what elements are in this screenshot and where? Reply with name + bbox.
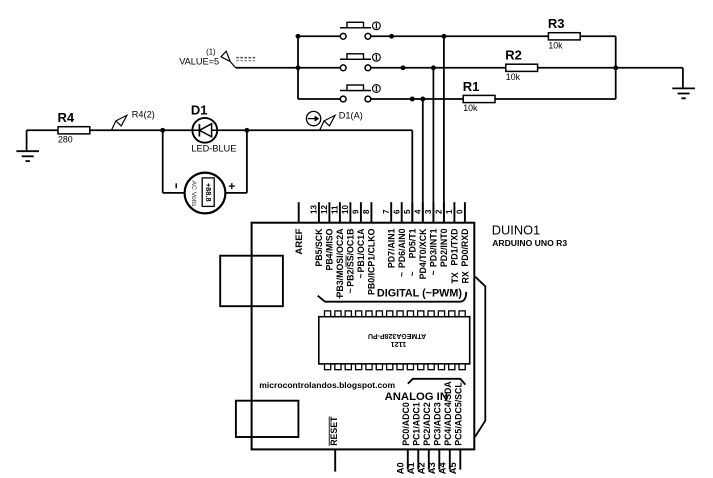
pin 10 digital xyxy=(349,202,351,223)
svg-text:PC3/ADC3: PC3/ADC3 xyxy=(433,402,443,446)
pin A4 analog xyxy=(449,449,451,469)
pin 12 digital xyxy=(328,202,330,223)
wire button2 to pin 3 xyxy=(432,68,434,223)
svg-text:R4(2): R4(2) xyxy=(132,110,155,120)
resistor R3 xyxy=(548,33,580,40)
svg-text:~: ~ xyxy=(408,271,418,276)
pin 2 digital xyxy=(443,202,445,223)
svg-text:PB3/MOSI/OC2A: PB3/MOSI/OC2A xyxy=(335,228,345,298)
svg-text:PD4/T0/XCK: PD4/T0/XCK xyxy=(418,228,428,279)
pin AREF xyxy=(298,202,300,223)
svg-text:DIGITAL (~PWM): DIGITAL (~PWM) xyxy=(377,287,462,299)
svg-text:12: 12 xyxy=(320,205,329,214)
svg-text:10: 10 xyxy=(341,205,350,214)
analog bracket xyxy=(408,379,466,385)
generator VALUE=5 probe symbol xyxy=(230,62,236,69)
wire button2 to R2 xyxy=(371,67,506,69)
current probe D1(A) xyxy=(306,111,320,125)
svg-text:8: 8 xyxy=(362,209,371,214)
probe R4(2) xyxy=(111,121,116,130)
wire R1 to right bus xyxy=(495,98,616,100)
svg-text:R4: R4 xyxy=(58,110,75,125)
digital bracket xyxy=(318,292,467,302)
voltmeter plus label xyxy=(229,185,235,187)
svg-text:9: 9 xyxy=(352,209,361,214)
svg-text:2: 2 xyxy=(435,209,444,214)
svg-text:PC0/ADC0: PC0/ADC0 xyxy=(401,402,411,446)
pin 4 digital xyxy=(422,202,424,223)
svg-text:PD3/INT1: PD3/INT1 xyxy=(429,228,439,267)
wire D1 anode to pin 5 xyxy=(247,129,412,131)
svg-text:ANALOG IN: ANALOG IN xyxy=(385,391,448,403)
svg-text:11: 11 xyxy=(331,205,340,214)
svg-text:~: ~ xyxy=(335,294,345,299)
pin 7 digital xyxy=(390,202,392,223)
pin 8 digital xyxy=(370,202,372,223)
svg-text:~: ~ xyxy=(346,288,356,293)
svg-text:AC Volts: AC Volts xyxy=(190,180,197,207)
junction right bus middle xyxy=(613,65,618,70)
svg-text:microcontrolandos.blogspot.com: microcontrolandos.blogspot.com xyxy=(259,380,395,390)
resistor R2 xyxy=(506,64,538,71)
pin A5 analog xyxy=(459,449,461,469)
svg-text:PC4/ADC4/SDA: PC4/ADC4/SDA xyxy=(443,381,453,446)
wire right bus vertical xyxy=(615,36,617,99)
wire bus to button3 xyxy=(298,98,340,100)
pin A1 analog xyxy=(417,449,419,469)
svg-text:1: 1 xyxy=(445,209,454,214)
svg-text:PC2/ADC2: PC2/ADC2 xyxy=(422,402,432,446)
ground right xyxy=(672,87,695,89)
svg-text:A5: A5 xyxy=(448,462,458,474)
arduino board outline xyxy=(252,223,475,450)
svg-text:PB1/OC1A: PB1/OC1A xyxy=(356,228,366,273)
svg-text:PD1/TXD: PD1/TXD xyxy=(450,229,460,266)
wire voltmeter plus xyxy=(225,192,247,194)
svg-text:LED-BLUE: LED-BLUE xyxy=(191,144,236,154)
junction at VALUE wire / left bus xyxy=(296,65,301,70)
wire button1 to pin 2 xyxy=(443,36,445,222)
svg-text:DUINO1: DUINO1 xyxy=(492,222,540,237)
svg-text:PD5/T1: PD5/T1 xyxy=(408,228,418,258)
ground left xyxy=(26,130,28,151)
svg-text:(1): (1) xyxy=(206,48,216,57)
svg-text:~: ~ xyxy=(356,273,366,278)
svg-text:4: 4 xyxy=(414,209,423,214)
svg-text:PC5/ADC5/SCL: PC5/ADC5/SCL xyxy=(454,382,464,446)
svg-text:7: 7 xyxy=(382,209,391,214)
junction button3 right b xyxy=(420,97,425,102)
resistor R4 xyxy=(58,127,90,134)
voltage probe D1(A) xyxy=(320,121,325,130)
svg-text:PC1/ADC1: PC1/ADC1 xyxy=(412,402,422,446)
wire to ground right xyxy=(682,68,684,89)
wire bus to button2 xyxy=(298,67,340,69)
svg-text:A1: A1 xyxy=(406,462,416,474)
svg-text:A3: A3 xyxy=(427,462,437,474)
wire button3 to pin 4 xyxy=(422,99,424,223)
svg-text:RX: RX xyxy=(460,271,470,283)
junction button1 right b xyxy=(441,34,446,39)
wire VALUE to left bus xyxy=(236,67,299,69)
svg-text:~: ~ xyxy=(429,270,439,275)
svg-text:10k: 10k xyxy=(506,72,521,82)
svg-text:~: ~ xyxy=(397,272,407,277)
junction left bus top xyxy=(296,34,301,39)
pin 0 digital xyxy=(464,202,466,223)
svg-text:PB0/ICP1/CLKO: PB0/ICP1/CLKO xyxy=(367,228,377,295)
svg-text:10k: 10k xyxy=(463,103,478,113)
svg-text:ARDUINO UNO R3: ARDUINO UNO R3 xyxy=(492,238,567,248)
arduino power connector xyxy=(236,401,299,437)
svg-text:0: 0 xyxy=(456,209,465,214)
wire R3 to right bus xyxy=(580,35,616,37)
svg-text:R3: R3 xyxy=(548,16,565,31)
svg-text:A0: A0 xyxy=(395,462,405,474)
voltmeter AC Volts meter xyxy=(185,173,226,214)
junction button2 right a xyxy=(401,65,406,70)
pin A3 analog xyxy=(438,449,440,469)
svg-text:VALUE=5: VALUE=5 xyxy=(179,56,219,66)
svg-text:PD0/RXD: PD0/RXD xyxy=(460,229,470,267)
junction button2 right b xyxy=(431,65,436,70)
pin 5 digital xyxy=(411,202,413,223)
led D1 xyxy=(163,129,247,131)
svg-text:280: 280 xyxy=(58,135,73,145)
svg-text:D1(A): D1(A) xyxy=(339,111,363,121)
svg-text:PB2/SS/OC1B: PB2/SS/OC1B xyxy=(346,229,356,287)
wire R4 to D1 node xyxy=(90,129,163,131)
svg-text:PD7/AIN1: PD7/AIN1 xyxy=(386,228,396,268)
svg-text:RESET: RESET xyxy=(329,416,339,446)
arduino usb connector xyxy=(220,256,283,307)
ic ATMEGA328P-PU xyxy=(319,317,470,364)
svg-text:A2: A2 xyxy=(416,462,426,474)
svg-text:1121: 1121 xyxy=(391,340,407,349)
svg-text:+88.8: +88.8 xyxy=(204,183,213,202)
svg-text:R2: R2 xyxy=(505,48,522,63)
pin RESET xyxy=(334,449,336,471)
button 2 (middle) xyxy=(340,58,371,60)
button 3 (bottom) xyxy=(340,90,371,92)
svg-text:A4: A4 xyxy=(437,461,447,474)
pin A0 analog xyxy=(407,449,409,469)
pin 3 digital xyxy=(432,202,434,223)
pin 6 digital xyxy=(401,202,403,223)
wire button3 to R1 xyxy=(371,98,463,100)
pin 1 digital xyxy=(453,202,455,223)
junction button3 right a xyxy=(410,97,415,102)
svg-text:PB4/MISO: PB4/MISO xyxy=(325,228,335,270)
pin 13 digital xyxy=(318,202,320,223)
wire left bus vertical xyxy=(297,36,299,99)
svg-text:PD6/AIN0: PD6/AIN0 xyxy=(397,228,407,268)
junction node D1 anode xyxy=(244,128,249,133)
svg-text:PD2/INT0: PD2/INT0 xyxy=(439,228,449,267)
svg-text:TX: TX xyxy=(450,272,460,283)
svg-text:13: 13 xyxy=(310,205,319,214)
button 1 (top) xyxy=(340,27,371,29)
junction button1 right a xyxy=(389,34,394,39)
svg-text:ATMEGA328P-PU: ATMEGA328P-PU xyxy=(368,332,426,339)
svg-text:PB5/SCK: PB5/SCK xyxy=(314,228,324,267)
svg-text:3: 3 xyxy=(424,209,433,214)
svg-text:D1: D1 xyxy=(191,102,208,117)
svg-text:5: 5 xyxy=(403,209,412,214)
wire ground to R4 xyxy=(27,129,58,131)
voltmeter minus label xyxy=(175,183,177,188)
resistor R1 xyxy=(463,95,495,102)
pin A2 analog xyxy=(428,449,430,469)
svg-text:6: 6 xyxy=(393,209,402,214)
junction node D1 cathode xyxy=(160,128,165,133)
wire voltmeter minus xyxy=(162,130,164,193)
wire R2 to right ground xyxy=(538,67,683,69)
svg-text:AREF: AREF xyxy=(294,228,305,254)
wire bus to button1 xyxy=(298,35,340,37)
pin 9 digital xyxy=(360,202,362,223)
svg-text:R1: R1 xyxy=(463,79,480,94)
generator VALUE=5 dashed state lines xyxy=(236,57,255,59)
pin 11 digital xyxy=(339,202,341,223)
wire button1 to R3 xyxy=(371,35,549,37)
svg-text:10k: 10k xyxy=(548,41,563,51)
